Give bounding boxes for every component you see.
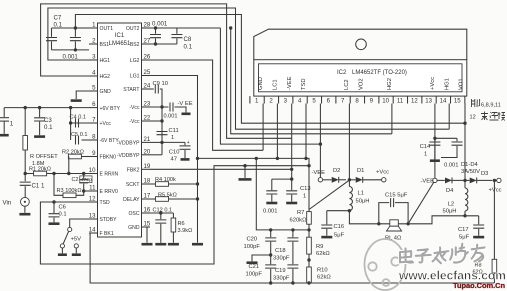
diode D4	[437, 179, 445, 181]
svg-text:+6V BTY: +6V BTY	[100, 106, 121, 112]
svg-text:-VEE: -VEE	[287, 76, 293, 90]
svg-text:6: 6	[92, 101, 96, 108]
svg-text:HG1: HG1	[444, 78, 450, 90]
svg-text:6: 6	[327, 98, 331, 105]
svg-text:-VEE: -VEE	[312, 170, 326, 176]
capacitor C12 0.1	[160, 213, 162, 219]
svg-text:STDBY: STDBY	[100, 217, 118, 223]
svg-text:-Vcc: -Vcc	[129, 119, 140, 125]
svg-text:12: 12	[470, 115, 476, 121]
terminal -VEE left	[318, 178, 322, 182]
svg-text:FBK2: FBK2	[127, 168, 140, 174]
wire GND pin15 to ground	[147, 227, 150, 243]
node C20 C21 mid	[269, 253, 272, 256]
svg-text:-VDDBYP: -VDDBYP	[117, 153, 140, 159]
svg-text:9: 9	[370, 98, 374, 105]
svg-text:22: 22	[144, 115, 151, 122]
ground mid schematic	[239, 178, 252, 181]
svg-text:+: +	[187, 140, 190, 146]
svg-text:11: 11	[397, 98, 404, 105]
svg-text:23: 23	[144, 101, 151, 108]
svg-text:0.001: 0.001	[63, 54, 79, 61]
switch STDBY pin13	[70, 219, 89, 227]
svg-text:OUT1: OUT1	[100, 26, 114, 32]
node L1 bottom	[348, 209, 351, 212]
wire HG1 pin3 loop to IC2 pin14	[48, 8, 449, 129]
terminal -VEE right	[433, 178, 437, 182]
capacitor C7 0.1 left branch	[52, 27, 76, 29]
wire BS1 pin2 to bootstrap bottom	[52, 49, 90, 51]
svg-text:0.001: 0.001	[164, 114, 178, 120]
svg-text:OUT2: OUT2	[126, 26, 140, 32]
capacitor C21 100pF	[270, 255, 272, 264]
svg-text:L2: L2	[448, 202, 454, 208]
svg-text:14: 14	[440, 98, 447, 105]
node L2 bottom	[464, 211, 466, 216]
svg-text:5: 5	[312, 98, 316, 105]
resistor R6 3.9k	[172, 213, 174, 218]
capacitor C6 0.1	[53, 202, 55, 213]
svg-text:1: 1	[171, 135, 174, 141]
node BS1 bootstrap junction	[74, 48, 77, 51]
node speaker right	[406, 222, 409, 225]
capacitor 1 input rail electrolytic	[3, 108, 5, 118]
svg-text:4: 4	[92, 70, 96, 77]
capacitor C18 330pF	[292, 230, 294, 237]
svg-text:C12 0.1: C12 0.1	[153, 208, 173, 214]
svg-text:TSD: TSD	[100, 200, 111, 206]
svg-text:24: 24	[144, 83, 151, 90]
svg-text:8: 8	[92, 134, 96, 141]
svg-text:0.1: 0.1	[59, 212, 67, 218]
wire L1 to C16	[327, 210, 350, 212]
resistor R1 20k	[25, 173, 33, 175]
svg-text:D3: D3	[481, 171, 488, 177]
resistor R2 20k on FBKN0 pin9	[81, 156, 89, 158]
svg-text:TSD: TSD	[301, 78, 307, 90]
svg-text:5: 5	[92, 85, 96, 92]
capacitor 0.001 bootstrap 1	[74, 28, 76, 37]
node C10 branch	[160, 141, 163, 144]
ground under C13	[286, 202, 297, 205]
svg-text:100pF: 100pF	[246, 272, 263, 278]
svg-text:7: 7	[341, 98, 345, 105]
wire ERR/IN pin10	[54, 173, 89, 175]
svg-text:C3: C3	[44, 117, 52, 124]
svg-text:3: 3	[284, 98, 288, 105]
resistor R7 620k	[307, 212, 312, 225]
svg-text:1: 1	[92, 22, 96, 29]
ground under Vin	[19, 213, 30, 216]
svg-text:C4 0.1: C4 0.1	[70, 115, 86, 121]
svg-text:START: START	[123, 87, 139, 93]
svg-text:R5 5kΩ: R5 5kΩ	[158, 193, 177, 199]
wire OSC pin16	[150, 212, 173, 214]
svg-text:DELAY: DELAY	[123, 197, 140, 203]
resistor ROFFSET 1.8M	[24, 108, 26, 136]
capacitor C4 0.1 on +Vcc pin7	[71, 122, 89, 124]
ground under C3	[34, 135, 45, 138]
node FBK2 joins IC2 pin3 drop	[290, 168, 293, 171]
IC2 body LM4652TF	[254, 60, 467, 96]
ground under pin15	[142, 243, 153, 246]
node C2 bottom pin11	[82, 189, 85, 192]
wire IC2 pin5 drop to -VEE terminal	[319, 104, 321, 178]
svg-text:10: 10	[382, 98, 389, 105]
wire mid ground stub	[252, 255, 271, 261]
ground at -VEE bypass	[182, 113, 191, 116]
node speaker left	[377, 222, 380, 225]
node C12 tap	[159, 211, 162, 214]
wire FBK1 pin14 to bottom feedback rail	[89, 233, 494, 283]
svg-text:R3 100kΩ: R3 100kΩ	[57, 188, 82, 194]
IC2 package tab (TO-220)	[254, 29, 467, 60]
svg-text:0.1: 0.1	[44, 124, 53, 131]
svg-text:R7: R7	[297, 210, 304, 216]
svg-text:12: 12	[89, 196, 96, 203]
svg-text:16: 16	[144, 207, 151, 214]
node input junction	[24, 172, 27, 175]
svg-text:LM4652TF (TO-220): LM4652TF (TO-220)	[352, 70, 407, 76]
IC1 pin stubs left	[89, 27, 98, 29]
wire OUT1 pin1 to bootstrap node	[75, 27, 89, 29]
wire drop to C20 C18 top line	[256, 158, 309, 230]
svg-text:1: 1	[10, 121, 14, 128]
capacitor C20 100pF	[270, 230, 272, 237]
svg-text:R4 100k: R4 100k	[155, 177, 176, 183]
capacitor C5 0.1 on -6VBTY pin8	[76, 136, 79, 145]
svg-text:OSC: OSC	[128, 211, 139, 217]
svg-text:2: 2	[269, 98, 273, 105]
svg-text:3: 3	[92, 54, 96, 61]
svg-text:+Vcc: +Vcc	[376, 170, 389, 176]
note pins not connected	[472, 99, 480, 107]
wire TSD pin12 loop to R7 top	[40, 166, 309, 264]
node branch to lower caps	[255, 157, 258, 160]
svg-text:-VEE: -VEE	[421, 178, 435, 184]
svg-text:IC1: IC1	[115, 33, 125, 39]
node A output junction	[348, 178, 351, 181]
ground under R6	[168, 243, 179, 246]
wire IC2 pin2 drop	[276, 104, 278, 159]
svg-text:C10: C10	[169, 150, 180, 156]
node L2 top	[463, 179, 466, 182]
svg-text:BS1: BS1	[100, 42, 110, 48]
svg-text:GND: GND	[100, 89, 112, 95]
watermark text dianzifashaoyou	[400, 248, 413, 262]
svg-text:C18: C18	[275, 248, 286, 254]
wire IC2 pin13 drop to -VEE terminal	[434, 104, 436, 179]
wire IC2 pin14 drop	[448, 104, 450, 130]
capacitor C3 0.1	[39, 108, 41, 118]
capacitor C1 1	[24, 174, 26, 182]
ground under C17	[473, 236, 484, 239]
svg-text:C1 1: C1 1	[32, 183, 45, 190]
svg-text:17: 17	[144, 193, 151, 200]
capacitor C17 5uF	[478, 216, 480, 225]
capacitor 0.001 series -VEE	[170, 103, 173, 112]
svg-text:26: 26	[144, 54, 151, 61]
capacitor C9 10 on START pin24	[150, 88, 154, 90]
svg-text:C7: C7	[54, 15, 62, 22]
node R1 right R3 branch	[52, 172, 55, 175]
wire ground tap	[244, 166, 246, 178]
ground under switch contact	[58, 253, 67, 256]
wire C20 top line	[269, 228, 272, 231]
speaker RL 4ohm	[390, 220, 399, 226]
svg-text:GND: GND	[258, 77, 264, 90]
svg-text:15: 15	[454, 98, 461, 105]
svg-text:D2: D2	[333, 168, 340, 174]
capacitor C11 1 on riser	[157, 132, 168, 135]
svg-text:LG2: LG2	[130, 58, 140, 64]
wire FBK2 pin19 to C13 node	[150, 168, 292, 170]
svg-text:Vin: Vin	[3, 200, 12, 207]
wire IC2 pin1 drop	[262, 104, 264, 151]
resistor R8 62ohm	[493, 180, 495, 259]
IC2 mounting hole	[356, 39, 367, 50]
svg-text:BS2: BS2	[130, 42, 140, 48]
svg-text:LM4651: LM4651	[109, 41, 131, 47]
ground under 0.001 snubber	[266, 202, 277, 205]
svg-text:C5 0.1: C5 0.1	[71, 132, 87, 138]
svg-text:C15 5μF: C15 5μF	[385, 193, 408, 199]
svg-text:20: 20	[144, 148, 151, 155]
watermark elecfans logo	[365, 239, 406, 290]
ground under +5V contact	[72, 253, 81, 256]
node divider mid	[307, 258, 310, 261]
wire OUT2 pin28 to bootstrap and over to IC2	[150, 27, 220, 29]
wire LG2 pin26 route to IC2 pin1	[150, 60, 263, 150]
wire IC2 pin7 drop	[348, 104, 350, 180]
node pin4 junction	[304, 157, 307, 160]
svg-text:4: 4	[298, 98, 302, 105]
svg-text:62kΩ: 62kΩ	[316, 251, 330, 257]
svg-text:C14: C14	[420, 144, 431, 150]
node ground tap on loop	[243, 164, 246, 167]
capacitor 0.001 right	[456, 138, 458, 141]
svg-text:R9: R9	[316, 244, 323, 250]
ground lower caps	[247, 261, 258, 264]
svg-text:Tupao.Com.Cn: Tupao.Com.Cn	[453, 281, 505, 290]
wire -VDDBYP pin20	[150, 154, 162, 156]
diagonal wire speaker node to -VEE right	[408, 182, 434, 224]
svg-text:1: 1	[303, 194, 306, 200]
svg-text:14: 14	[89, 227, 96, 234]
capacitor C13 1	[291, 179, 293, 190]
svg-text:SCKT: SCKT	[126, 182, 140, 188]
svg-text:0.1: 0.1	[54, 22, 63, 29]
ground under pin5	[71, 99, 82, 102]
svg-text:2: 2	[92, 38, 96, 45]
svg-text:HG2: HG2	[100, 74, 111, 80]
svg-text:+Vcc: +Vcc	[489, 188, 502, 194]
capacitor C10 47 electrolytic	[162, 141, 185, 143]
svg-text:0.001: 0.001	[263, 209, 278, 215]
wire bypass branch to R7 column	[198, 158, 310, 211]
capacitor C19 330pF	[287, 265, 298, 268]
svg-text:R6: R6	[178, 221, 185, 227]
terminal +Vcc left	[382, 178, 386, 182]
ground under LG1 column	[192, 243, 203, 246]
node R2 riser	[67, 172, 70, 175]
svg-text:C9 10: C9 10	[153, 81, 168, 87]
svg-text:C2: C2	[72, 177, 79, 183]
resistor R3 100k feedback	[54, 174, 63, 196]
svg-text:1: 1	[424, 152, 427, 158]
svg-text:D4: D4	[446, 188, 454, 194]
node branch to IC2 pin10	[229, 26, 232, 29]
wire OUT1 top route to IC2 pin15	[75, 15, 465, 124]
svg-text:9: 9	[92, 150, 96, 157]
svg-text:GND: GND	[128, 225, 140, 231]
svg-text:28: 28	[144, 22, 151, 29]
svg-text:11: 11	[89, 185, 96, 192]
node C21 rail	[269, 281, 272, 284]
node C19 rail	[291, 281, 294, 284]
svg-text:12: 12	[411, 98, 418, 105]
svg-text:13: 13	[425, 98, 432, 105]
svg-text:R OFFSET: R OFFSET	[30, 154, 58, 160]
svg-text:1: 1	[255, 98, 259, 105]
svg-text:F BK1: F BK1	[100, 231, 114, 237]
svg-text:VO1: VO1	[459, 78, 465, 90]
ground under C12	[155, 243, 166, 246]
wire IC2 pin15 drop	[464, 104, 466, 181]
node R10 rail	[307, 281, 310, 284]
svg-text:100pF: 100pF	[244, 244, 261, 250]
diode D3	[465, 179, 470, 181]
wire LG1 pin25 to SCKT DELAY ground column	[150, 76, 198, 243]
svg-text:+Vcc: +Vcc	[100, 121, 112, 127]
capacitor 0.001 bootstrap 2	[155, 28, 157, 34]
resistor R10 62k	[307, 267, 312, 283]
svg-text:FBKN0: FBKN0	[100, 155, 117, 161]
svg-text:C20: C20	[247, 237, 258, 243]
svg-text:3A/50V: 3A/50V	[461, 169, 480, 175]
svg-text:C11: C11	[169, 128, 179, 134]
svg-text:0.001: 0.001	[152, 21, 168, 28]
node R8 tap	[493, 179, 496, 182]
wire BS2 pin27 to bootstrap bottom	[150, 43, 177, 45]
svg-text:HG1: HG1	[100, 58, 111, 64]
wire R7 to divider	[308, 224, 310, 237]
wire branch to IC2 pin10	[231, 28, 392, 134]
svg-text:E RRV0: E RRV0	[100, 189, 118, 195]
svg-text:5μF: 5μF	[334, 233, 345, 239]
svg-text:-VDDBYP: -VDDBYP	[117, 141, 140, 147]
svg-text:0.1: 0.1	[184, 44, 193, 51]
svg-text:620kΩ: 620kΩ	[290, 218, 308, 224]
svg-text:21: 21	[144, 136, 151, 143]
svg-text:15: 15	[144, 221, 151, 228]
svg-text:18: 18	[144, 178, 151, 185]
wire -Vcc pin23 to -VEE	[150, 106, 169, 108]
wire IC2 pin4 drop	[305, 104, 307, 159]
svg-text:27: 27	[144, 38, 151, 45]
wire HG2 pin4 loop to IC2 pin3	[41, 4, 292, 138]
wire R9 R10 link	[308, 254, 310, 267]
svg-text:LG1: LG1	[130, 74, 140, 80]
svg-text:0.001: 0.001	[444, 163, 459, 169]
node divider top	[307, 228, 310, 231]
svg-text:62kΩ: 62kΩ	[317, 275, 331, 281]
svg-text:-Vcc: -Vcc	[129, 105, 140, 111]
node OUT2 bootstrap junction	[154, 26, 157, 29]
wire C14 top link	[435, 137, 457, 139]
svg-text:C17: C17	[458, 227, 469, 233]
capacitor C8 0.1	[176, 28, 178, 34]
node rail ROFFSET	[24, 106, 27, 109]
capacitor C15 5uF across speaker	[379, 203, 389, 224]
node snubber top	[290, 177, 293, 180]
node pin15 drop junction	[463, 122, 466, 125]
svg-text:5μF: 5μF	[459, 235, 470, 241]
svg-text:LC2: LC2	[344, 79, 350, 90]
node loop junction	[307, 164, 310, 167]
capacitor C16 5uF	[326, 211, 328, 225]
svg-text:C21: C21	[249, 264, 260, 270]
inductor L2 50uH	[464, 180, 466, 188]
terminal +Vcc right	[494, 179, 496, 181]
svg-text:8: 8	[355, 98, 359, 105]
node C6 top	[52, 200, 55, 203]
wire -VDDBYP pin21	[150, 141, 162, 143]
svg-text:3.9kΩ: 3.9kΩ	[178, 228, 193, 234]
node pin2 junction	[276, 157, 279, 160]
node -Vcc pin23 junction	[160, 105, 163, 108]
resistor R4 100k on SCKT pin18	[150, 183, 156, 185]
svg-text:7: 7	[92, 117, 96, 124]
resistor R9 62k	[307, 237, 312, 254]
svg-text:C6: C6	[59, 205, 66, 211]
svg-text:+Vcc: +Vcc	[430, 77, 436, 90]
svg-text:330pF: 330pF	[273, 256, 290, 262]
svg-text:E RR/IN: E RR/IN	[100, 172, 119, 178]
wire C4 C5 riser	[70, 108, 72, 140]
svg-text:10: 10	[89, 167, 96, 174]
diode D2	[323, 179, 332, 181]
svg-text:50μH: 50μH	[356, 199, 370, 205]
svg-text:50μH: 50μH	[443, 209, 457, 215]
svg-text:R10: R10	[317, 268, 328, 274]
capacitor C14 1	[434, 138, 436, 141]
svg-text:HG2: HG2	[387, 78, 393, 90]
diagonal feedback wire	[309, 181, 348, 210]
node SCKT junction	[196, 157, 199, 160]
svg-text:D1-D4: D1-D4	[461, 162, 479, 168]
svg-text:19: 19	[144, 163, 151, 170]
IC2 pin leads	[249, 96, 251, 103]
ground under C14	[430, 159, 440, 162]
svg-text:R2 20kΩ: R2 20kΩ	[62, 150, 84, 156]
svg-text:R1 20kΩ: R1 20kΩ	[29, 167, 51, 173]
svg-text:330pF: 330pF	[273, 276, 290, 282]
ground under input rail cap	[0, 134, 9, 137]
svg-text:+5V: +5V	[71, 237, 82, 243]
node OUT1 bootstrap junction	[74, 26, 77, 29]
inductor L1 50uH	[348, 180, 350, 187]
wire ERRV0 pin11	[84, 190, 89, 192]
source Vin	[21, 197, 30, 206]
node C14 junction	[433, 137, 436, 140]
wire GND pin5 to ground	[76, 91, 89, 99]
svg-text:C16: C16	[334, 224, 345, 230]
wire -Vcc riser	[161, 107, 163, 155]
svg-text:LC1: LC1	[272, 79, 278, 90]
resistor R5 5k on DELAY pin17	[150, 198, 156, 200]
svg-text:C19: C19	[275, 268, 286, 274]
